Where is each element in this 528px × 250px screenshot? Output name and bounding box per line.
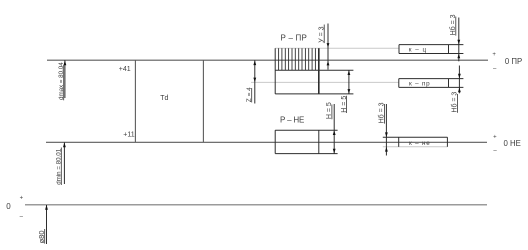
- dimension dmin = 80.01: [56, 142, 66, 185]
- svg-text:Р – НЕ: Р – НЕ: [280, 115, 304, 124]
- node 0 НЕ with polarity: [493, 134, 521, 154]
- svg-text:+11: +11: [123, 132, 134, 139]
- node 0 ПР with polarity: [492, 52, 522, 72]
- dimension Нб = 3 (к-пр): [451, 66, 461, 113]
- svg-text:к – пр: к – пр: [409, 81, 430, 88]
- svg-text:+: +: [492, 52, 496, 58]
- svg-text:0 ПР: 0 ПР: [505, 57, 522, 66]
- dimension dmax = 80.04: [58, 60, 66, 100]
- block Р-НЕ: [275, 130, 337, 153]
- dimension Н = 5 (upper, Р-ПР lower box): [341, 70, 351, 113]
- dimension У = 3: [318, 24, 329, 70]
- wire: light connector to к-пр: [251, 81, 399, 83]
- node 0 (zero line) with polarity: [6, 195, 23, 220]
- wire: level line B (middle datum): [46, 141, 487, 143]
- dimension Z = 4: [246, 60, 256, 103]
- box к-ц: [399, 45, 463, 54]
- hatch lines of Р-ПР: [279, 48, 316, 70]
- dimension Нб = 3 (к-не): [378, 102, 388, 155]
- svg-text:0: 0: [6, 202, 11, 211]
- wire: level line A (top datum): [47, 59, 488, 61]
- dimension ∅80: [37, 205, 48, 244]
- wire: light connector to к-ц: [275, 47, 399, 49]
- wire: vertical V1: [134, 60, 136, 142]
- svg-text:к – ц: к – ц: [409, 46, 427, 53]
- svg-text:0 НЕ: 0 НЕ: [504, 139, 521, 148]
- box к-пр: [399, 79, 464, 88]
- dimension Н = 5 (lower, Р-НЕ box): [326, 102, 336, 153]
- dimension Нб = 3 (к-ц): [449, 14, 460, 61]
- svg-text:Td: Td: [160, 95, 168, 102]
- svg-text:+41: +41: [119, 66, 131, 73]
- svg-text:+: +: [493, 134, 497, 140]
- wire: level line C (zero datum): [25, 204, 487, 206]
- svg-text:Р – ПР: Р – ПР: [281, 34, 308, 43]
- box к-не: [383, 137, 448, 147]
- svg-text:к – не: к – не: [409, 140, 431, 147]
- svg-text:+: +: [20, 195, 24, 201]
- wire: vertical V2: [202, 60, 204, 142]
- block Р-ПР (hatched interval): [275, 48, 353, 94]
